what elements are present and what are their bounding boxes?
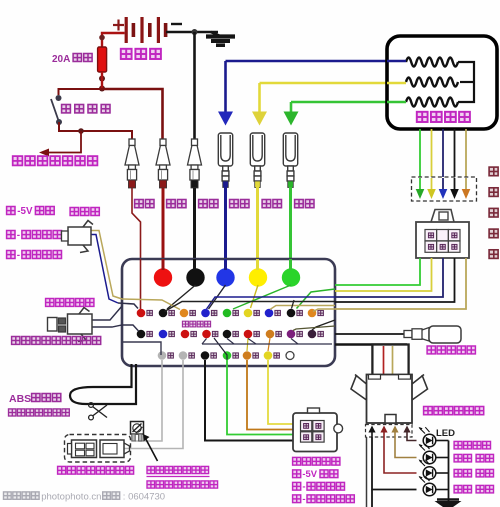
label 仪表和车灯电源 bbox=[13, 156, 23, 165]
label 蓝-助力信号 bbox=[7, 231, 15, 239]
wire battery- to ground and down bbox=[166, 31, 218, 33]
label 调速刹车线 bbox=[293, 457, 301, 465]
pin row 2 (黑蓝红红黑红橙紫黑) bbox=[137, 330, 146, 339]
fuse F1 20A bbox=[98, 47, 107, 72]
svg-text:LED: LED bbox=[436, 428, 455, 439]
label 选择键插头 bbox=[46, 299, 54, 307]
connector J1 细红 (bullet) bbox=[125, 139, 139, 180]
pin row 3 (灰灰黑绿橙黄 + spare) bbox=[158, 351, 167, 360]
label 速度二档 bbox=[454, 469, 462, 477]
wire 粗绿 to controller bbox=[289, 187, 292, 270]
labels 细红 粗红 粗黑 粗蓝 粗黄 粗绿 bbox=[135, 200, 144, 208]
winding common bus bbox=[458, 62, 474, 102]
wire gray2 to limit plug bbox=[113, 360, 183, 449]
motor winding L1 bbox=[406, 58, 458, 67]
wire battery+ to fuse bbox=[102, 33, 125, 47]
hall connector P4 bbox=[416, 222, 469, 258]
connector J2 粗红 (bullet) bbox=[156, 139, 170, 180]
label 黑-绝电位刹车 bbox=[293, 495, 301, 503]
speed meter jack (barrel) bbox=[404, 331, 412, 338]
LED D3 speed 2 bbox=[423, 467, 436, 480]
limit plug female bbox=[100, 440, 124, 458]
pointer arrow to pot bbox=[145, 438, 158, 462]
scissors symbol bbox=[93, 405, 108, 416]
LED wires bbox=[407, 437, 417, 441]
hall signal arrows dashed box bbox=[412, 177, 477, 201]
wire orange to throttle connector bbox=[247, 360, 293, 430]
label 橙-5V电源 bbox=[293, 470, 301, 478]
svg-text:-5V: -5V bbox=[17, 206, 33, 217]
wire gray1 to pot legs bbox=[135, 360, 162, 441]
svg-text:-: - bbox=[302, 494, 305, 505]
motor winding L2 bbox=[406, 78, 458, 87]
latch wings bbox=[355, 375, 367, 385]
LED D1 charge indicator bbox=[423, 434, 436, 447]
svg-text:-5V: -5V bbox=[302, 468, 317, 479]
label 霍尔信号线 (vertical) bbox=[489, 167, 498, 176]
svg-text:-: - bbox=[17, 250, 20, 261]
watermark bbox=[4, 492, 12, 499]
connector J5 粗黄 (spade) bbox=[250, 133, 264, 181]
connector J6 粗绿 (spade) bbox=[283, 133, 297, 181]
left-side feed lines into box bbox=[92, 231, 123, 300]
wire 粗黄 to controller bbox=[256, 187, 259, 270]
svg-text:-: - bbox=[302, 482, 305, 493]
hall wires connector to controller bbox=[335, 258, 420, 285]
hall wires from motor down bbox=[419, 129, 421, 198]
battery pack BT1 bbox=[113, 17, 182, 43]
svg-text:-: - bbox=[17, 230, 20, 241]
connector J4 粗蓝 (spade) bbox=[218, 133, 232, 181]
label 橙-5V电源 bbox=[7, 207, 15, 215]
display plug upper shell bbox=[372, 345, 408, 376]
label 对插时为限速有效 bbox=[58, 466, 66, 474]
brushless motor M1 bbox=[387, 36, 497, 129]
PAS connector P1 (助力线) bbox=[68, 227, 91, 245]
internal feed diagonals bbox=[167, 285, 196, 309]
LED D2 speed 3 bbox=[423, 451, 436, 464]
label 仪表显示插头 bbox=[424, 407, 433, 415]
label 防磁转把电位器 (underlined) bbox=[147, 466, 155, 473]
label 充电指示 bbox=[454, 441, 462, 449]
label 黑-信号地线 bbox=[7, 251, 15, 259]
wire 粗黑 to controller bbox=[193, 188, 196, 270]
svg-text:: 0604730: : 0604730 bbox=[123, 492, 165, 503]
wire switch to meter-power arrow and connector 细红 bbox=[59, 122, 132, 140]
wire 细红 to controller bbox=[132, 188, 141, 310]
label 速度三档 bbox=[454, 454, 462, 462]
right-side hall feed lines into box bbox=[297, 289, 336, 309]
label 电池组 bbox=[121, 49, 132, 59]
dashed box (speed limit) bbox=[65, 435, 131, 463]
wire 粗红 to controller bbox=[162, 188, 165, 270]
svg-text:photophoto.cn: photophoto.cn bbox=[41, 492, 101, 503]
label 助力线 bbox=[70, 208, 78, 216]
wire thick black to connector 粗黑 bbox=[193, 32, 196, 140]
controller box U1 bbox=[122, 259, 335, 366]
motor winding L3 bbox=[406, 98, 458, 107]
display plug body bbox=[367, 375, 413, 424]
internal line to gray pin bbox=[122, 342, 161, 355]
power lock switch S1 bbox=[56, 95, 62, 101]
select-key connector P2 bbox=[68, 314, 93, 334]
svg-text:ABS: ABS bbox=[9, 393, 31, 405]
wire fuse to switch and to 粗红 connector bbox=[59, 89, 103, 95]
label 接转把上的按键开关 bbox=[12, 337, 20, 345]
label 无刷电机 bbox=[417, 112, 428, 122]
wire black to throttle connector bbox=[205, 360, 293, 441]
wire to display plug bbox=[335, 343, 407, 345]
label 速度一档 bbox=[454, 485, 462, 493]
wire 粗蓝 to controller bbox=[224, 187, 227, 270]
wire to speed meter jack bbox=[335, 333, 404, 335]
limit plug male bbox=[72, 440, 97, 458]
ABS select loop wire bbox=[70, 364, 136, 404]
throttle potentiometer (hatched box) bbox=[131, 422, 144, 435]
LED cathode bus to ground bbox=[436, 440, 448, 442]
label 速度仪表线 bbox=[427, 346, 435, 354]
power pads: red black blue yellow green bbox=[154, 268, 172, 286]
wire yellow to throttle connector bbox=[268, 360, 293, 424]
label 蓝白花线 bbox=[182, 321, 188, 327]
row2 collector line bbox=[202, 343, 332, 345]
ground (battery) bbox=[211, 32, 220, 36]
label 电锁开关 bbox=[62, 105, 71, 113]
wire motor phase yellow bbox=[260, 82, 388, 85]
svg-text:20A: 20A bbox=[52, 54, 70, 65]
ground (LED) bbox=[448, 496, 450, 501]
connector J3 粗黑 (bullet) bbox=[188, 139, 202, 180]
throttle connector P3 (调速刹车线) bbox=[293, 413, 337, 452]
label 绿-调速信号 bbox=[293, 482, 301, 490]
LED D4 speed 1 bbox=[423, 483, 436, 496]
pin row 1 (红黑橙蓝绿黄蓝黑橙) bbox=[137, 309, 146, 318]
label 顺时针调节为加速 bbox=[147, 481, 155, 488]
wire motor phase blue bbox=[226, 60, 388, 63]
label 剪断为普通刹车 bbox=[9, 409, 16, 416]
wire motor phase green bbox=[291, 101, 387, 104]
wire green to throttle connector bbox=[227, 360, 293, 435]
plug pin arrows dashed box bbox=[366, 425, 413, 438]
